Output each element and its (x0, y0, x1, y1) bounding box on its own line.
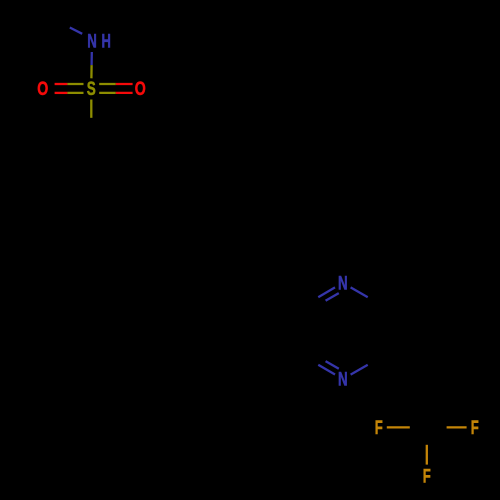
bond Nb=Cb main (second half) (301, 355, 318, 365)
bond S-C1 (second half) (90, 118, 92, 136)
bond S=O right line (99, 83, 116, 85)
bond Nt=Ca inner (b half) (312, 301, 325, 309)
bond Nt=Ca main (second half) (301, 297, 318, 307)
bond C-F right (F half) (447, 426, 467, 428)
bond S=O right line (116, 92, 133, 94)
svg-text:F: F (375, 418, 383, 439)
bond Nb-Cc (first half) (351, 365, 368, 375)
svg-text:H: H (102, 32, 111, 53)
svg-text:N: N (338, 273, 348, 294)
bond Cc-E1 (385, 355, 427, 379)
bond N-S (first half) (90, 52, 93, 65)
svg-text:N: N (338, 370, 348, 391)
bond CH3-N (N half) (70, 28, 82, 34)
bond Nt=Ca inner (a half) (326, 293, 339, 301)
bond N-S (second half) (90, 65, 92, 78)
bond S=O left line (67, 83, 83, 85)
bond C1-C2 (91, 136, 133, 160)
bond S=O left line (55, 83, 68, 85)
bond S=O right line (116, 83, 133, 85)
bond C-F left (F half) (387, 426, 410, 428)
bond S=O right line (99, 92, 116, 94)
bond K1-K2 (175, 233, 217, 258)
bond Nt=Ca main (first half) (318, 287, 335, 297)
svg-text:N: N (87, 32, 97, 53)
bond S=O left line (55, 92, 68, 94)
bond C-F bottom (F half) (426, 445, 428, 465)
bond E1-CF3 (425, 379, 427, 427)
svg-text:O: O (37, 79, 48, 100)
svg-text:S: S (87, 79, 96, 100)
bond S-C1 (first half) (90, 100, 92, 118)
bond Nb=Cb main (first half) (318, 365, 335, 375)
bond Ca-Cb (300, 307, 302, 355)
svg-text:F: F (471, 418, 479, 439)
svg-text:F: F (423, 466, 431, 487)
bond C-F left (C half) (410, 426, 427, 428)
bond Nb=Cb inner (b half) (312, 353, 325, 361)
bond C-F bottom (C half) (426, 428, 428, 445)
bond C2-C3 (132, 160, 134, 208)
bond K2-K3 (217, 258, 259, 283)
bond C-F right (C half) (427, 426, 447, 428)
bond Nb-Cc (second half) (368, 355, 385, 365)
bond Nt-Cd (second half) (368, 297, 385, 307)
bond CH3-N (C half) (49, 20, 70, 28)
bond S=O left line (67, 92, 83, 94)
bond C3-K1 (133, 208, 175, 233)
bond Cc-Cd (384, 307, 386, 355)
bond Nt-Cd (first half) (351, 287, 368, 297)
svg-text:O: O (135, 79, 146, 100)
bond K3-Ca (259, 282, 301, 307)
bond Nb=Cb inner (a half) (326, 361, 339, 369)
